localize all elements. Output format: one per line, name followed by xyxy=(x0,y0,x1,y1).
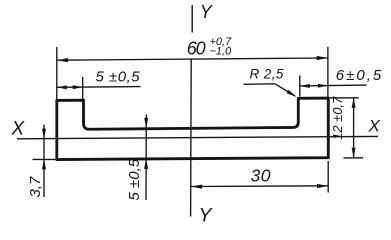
svg-text:Y: Y xyxy=(200,2,214,22)
svg-text:60: 60 xyxy=(187,38,206,58)
dimension 3,7 line xyxy=(43,125,45,198)
part outline xyxy=(57,98,329,160)
dimension 6 arrow right xyxy=(318,84,328,88)
dimension 60 extension line left xyxy=(56,47,58,99)
dimension 12 extension line bottom xyxy=(344,157,364,159)
Y axis main segment xyxy=(190,60,193,217)
svg-text:Y: Y xyxy=(199,205,214,227)
radius callout arrowhead xyxy=(287,90,297,97)
svg-text:3,7: 3,7 xyxy=(27,176,44,198)
svg-text:30: 30 xyxy=(251,166,271,186)
radius callout leader line xyxy=(275,84,295,96)
dimension 5 (top-left) line with shelf xyxy=(57,86,141,89)
dimension 5 (bottom-center) arrow top xyxy=(144,118,148,128)
svg-text:5 ±0,5: 5 ±0,5 xyxy=(96,69,141,86)
dimension 3,7 arrow top xyxy=(42,129,46,139)
dimension 60 line xyxy=(57,58,328,60)
X axis xyxy=(17,136,378,138)
dimension 12 arrow top xyxy=(352,98,356,108)
svg-text:X: X xyxy=(368,116,381,135)
svg-text:6±0,5: 6±0,5 xyxy=(336,67,383,84)
dimension 60 extension line right xyxy=(327,47,329,98)
dimension 3,7 extension line bottom-left xyxy=(33,158,57,160)
dimension 30 extension line right xyxy=(327,161,329,193)
dimension 60 arrow right xyxy=(317,56,328,60)
dimension 5 (top-left) arrow left xyxy=(57,85,67,89)
dimension 12 line xyxy=(353,98,355,158)
dimension 30 arrow right xyxy=(317,184,328,188)
dimension 5 (top-left) extension line right xyxy=(82,77,84,100)
dimension 30 line xyxy=(191,185,328,188)
svg-text:5 ±0,5: 5 ±0,5 xyxy=(126,158,143,200)
radius callout shelf line xyxy=(244,83,276,86)
svg-text:−1,0: −1,0 xyxy=(210,46,233,58)
dimension 5 (bottom-center) line xyxy=(145,115,147,201)
svg-text:12 ±0,7: 12 ±0,7 xyxy=(330,96,345,140)
svg-text:X: X xyxy=(11,119,26,140)
dimension 6 extension line left xyxy=(299,76,301,97)
dimension 3,7 arrow bottom xyxy=(42,159,46,169)
dimension 6 line with shelf xyxy=(300,84,367,87)
Y axis top segment xyxy=(191,5,193,33)
dimension 30 arrow left xyxy=(191,185,202,189)
dimension 12 arrow bottom xyxy=(352,148,356,158)
dimension 6 arrow left xyxy=(300,84,310,88)
svg-text:R 2,5: R 2,5 xyxy=(250,67,284,82)
dimension 60 arrow left xyxy=(57,58,68,62)
dimension 5 (top-left) arrow right xyxy=(73,85,83,89)
dimension 12 extension line top xyxy=(330,97,359,99)
dimension 5 (bottom-center) arrow bottom xyxy=(144,159,148,169)
